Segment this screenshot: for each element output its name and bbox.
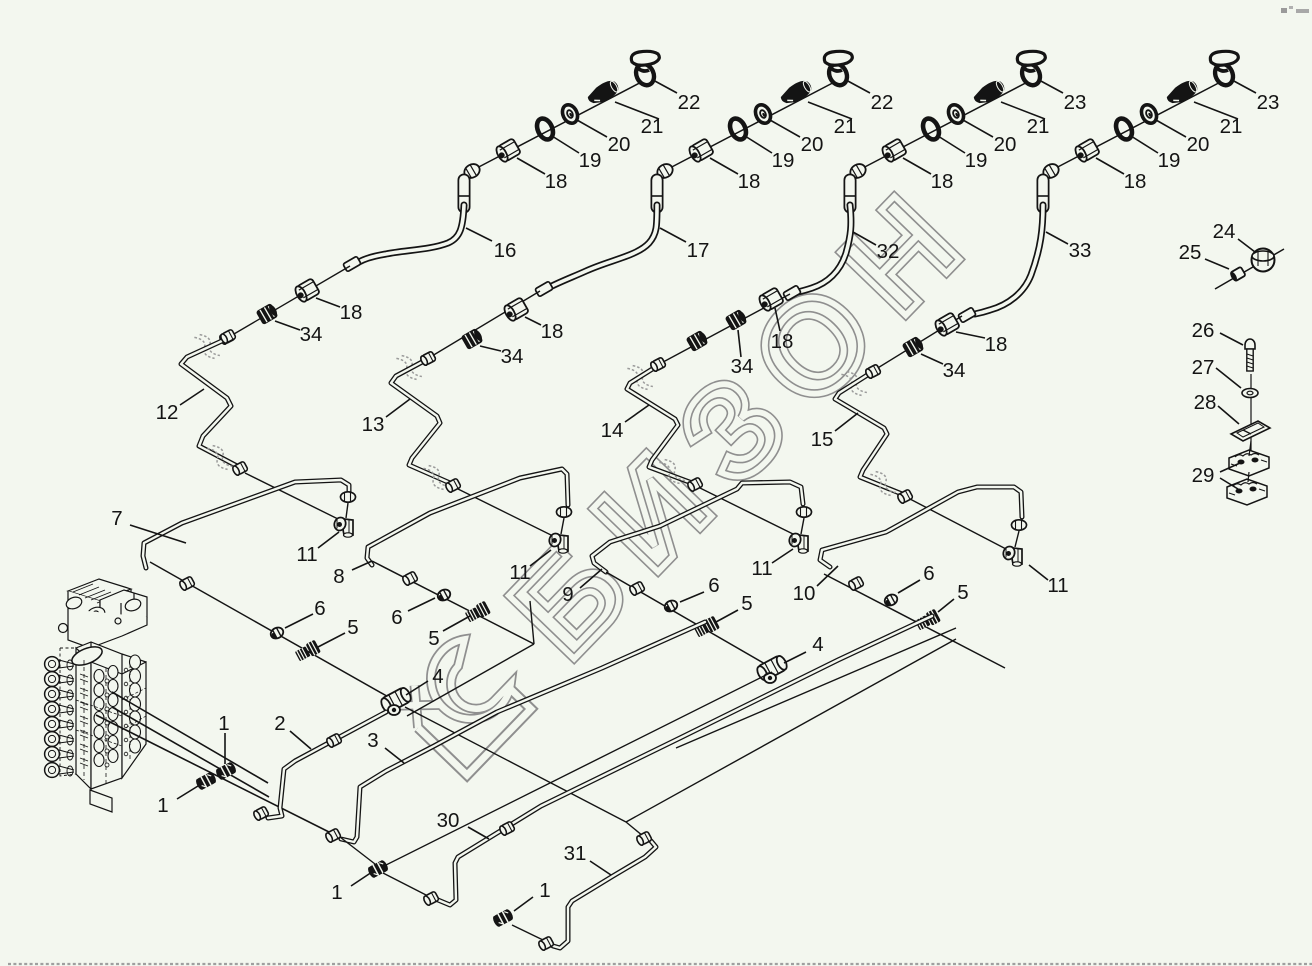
valve block ports [80,655,141,767]
washer 20 [1139,102,1160,125]
fitting 34 [257,303,280,324]
leader 20 [1156,120,1186,137]
pipe 12 [181,340,237,466]
svg-text:21: 21 [641,115,664,138]
line nut-elbow 10 [1015,531,1019,547]
nut 18 [687,138,714,163]
construction line [245,473,340,520]
pipe 30 [438,616,932,905]
axis line [868,316,962,374]
nut 18 [933,312,960,337]
svg-text:21: 21 [834,115,857,138]
svg-text:19: 19 [772,149,795,172]
svg-text:19: 19 [965,149,988,172]
bolt 26 [1245,339,1255,371]
fitting 34 [726,309,749,330]
leader 27 [1216,368,1241,388]
axis line [824,574,1005,668]
svg-text:34: 34 [731,355,754,378]
construction line [530,601,534,644]
leader 18 [775,308,780,331]
svg-text:29: 29 [1192,464,1215,487]
pipe 14 [627,368,692,483]
svg-text:30: 30 [437,809,460,832]
leader 15 [835,413,858,431]
leader 34 [738,330,741,357]
axis line [422,291,540,362]
svg-text:27: 27 [1192,356,1215,379]
leader 33 [1046,232,1068,244]
pipe 13 bottom nut [445,478,462,493]
svg-text:23: 23 [1064,91,1087,114]
leader 11 [530,550,551,566]
leader 7 [130,525,186,543]
leader 23 [1039,80,1063,93]
hose 33 ferrule band [1037,195,1049,197]
valve block texture [76,660,146,784]
small nut [865,364,882,379]
leader 21 [1001,102,1045,119]
construction line [458,489,553,536]
svg-text:2: 2 [274,712,285,735]
watermark logo swirl [392,634,533,775]
line nut-elbow 8 [561,518,564,534]
valve block pilot caps [45,657,74,778]
svg-text:34: 34 [943,359,966,382]
leader 23 [1232,80,1256,93]
leader 32 [853,232,876,245]
elbow nut [462,161,482,180]
leader 9 [580,569,602,588]
fitting 5 [693,616,720,639]
leader 18 [517,158,545,174]
hose 32 ferrule [783,285,801,301]
nut 6 [436,587,452,602]
leader 4 [784,652,806,663]
leader 6 [898,580,920,593]
svg-text:11: 11 [509,561,530,584]
hose 17 top tube [651,180,664,207]
pipe 15 break top [841,368,867,399]
fitting 34 [462,328,485,349]
pipe 30 nut [499,821,516,836]
svg-text:17: 17 [687,239,710,262]
svg-text:5: 5 [741,592,752,615]
nut 18 [494,138,521,163]
construction line [626,639,956,822]
leader 21 [1194,102,1238,119]
leader 4 [406,681,428,695]
nut 18 [502,297,529,322]
leader 6 [680,592,704,602]
fitting 5 [294,640,321,663]
nut 6 [883,592,899,607]
svg-text:21: 21 [1220,115,1243,138]
junction fitting 4 [379,686,413,715]
svg-text:34: 34 [501,345,524,368]
svg-text:20: 20 [1187,133,1210,156]
svg-text:14: 14 [601,419,624,442]
hose 16 top tube [458,180,471,207]
fitting 1 [492,908,515,928]
leader 11 [318,532,339,548]
leader 5 [938,599,954,612]
svg-text:12: 12 [156,401,179,424]
leader 29 [1220,478,1238,489]
leader 19 [938,136,965,153]
svg-text:11: 11 [296,543,317,566]
pipe 15 bottom nut [897,489,914,504]
hose 17 ferrule [535,281,553,297]
elbow fitting 11 [333,516,353,537]
pipe 7 end nut [341,492,356,502]
leader 1 [224,733,226,764]
pipe 9 end nut [797,507,812,517]
elbow nut [848,161,868,180]
leader 31 [590,861,611,875]
o-ring 19 [727,116,749,142]
leader 8 [352,561,372,570]
junction fitting 4 [755,654,789,683]
svg-text:21: 21 [1027,115,1050,138]
nut 6 [663,598,679,613]
line nut-elbow 7 [346,503,348,518]
plate 28 [1231,421,1270,441]
small nut [420,351,437,366]
pipe 9 [592,482,803,572]
leader 2 [290,731,311,749]
leader 16 [466,228,492,241]
svg-text:34: 34 [300,323,323,346]
washer 20 [753,102,774,125]
svg-text:20: 20 [801,133,824,156]
leader 6 [285,614,313,628]
svg-text:22: 22 [678,91,701,114]
leader 29 [1220,463,1240,472]
svg-text:31: 31 [564,842,587,865]
leader 21 [808,102,852,119]
leader 22 [846,80,870,93]
hose 16 [359,205,464,262]
svg-text:18: 18 [738,170,761,193]
svg-text:18: 18 [340,301,363,324]
leader 10 [817,566,838,586]
svg-text:18: 18 [931,170,954,193]
leader 20 [770,120,800,137]
construction line [700,488,793,534]
valve block lower stub [90,790,112,812]
nut [848,576,865,591]
pipe 3 end nut [325,828,342,843]
svg-text:32: 32 [877,240,900,263]
breather cap 22 [824,51,852,88]
svg-text:24: 24 [1213,220,1236,243]
cone fitting 21 [1164,77,1200,108]
o-ring 19 [920,116,942,142]
leader 5 [716,610,738,622]
pipe 14 break bottom [659,456,685,487]
svg-text:25: 25 [1179,241,1202,264]
bottom dotted rule [8,963,1312,965]
svg-text:18: 18 [1124,170,1147,193]
svg-text:11: 11 [1047,574,1068,597]
hose 32 [798,205,851,292]
leader 1 [514,897,533,911]
svg-text:33: 33 [1069,239,1092,262]
nut 18 [757,287,784,312]
construction line [340,837,375,864]
pipe 8 [367,469,568,565]
leader 18 [525,317,541,325]
construction line [405,707,626,822]
elbow fitting 11 [548,532,568,553]
nut 24 [1252,249,1275,272]
leader 18 [710,158,738,174]
leader 34 [480,346,501,351]
hose 17 ferrule band [651,195,663,197]
washer 20 [560,102,581,125]
leader 34 [275,321,300,330]
leader 5 [318,633,345,647]
elbow nut [1041,161,1061,180]
fitting 1 [367,859,390,879]
hose 33 [975,205,1043,314]
small nut [650,357,667,372]
fitting 34 [903,336,926,357]
cone fitting 21 [778,77,814,108]
leader 1 [351,872,372,886]
breather cap 23 [1210,51,1238,88]
axis line [606,572,772,668]
hose 32 ferrule band [844,195,856,197]
breather cap 23 [1017,51,1045,88]
svg-text:6: 6 [391,606,402,629]
hose 16 ferrule [343,256,361,272]
construction line [910,499,1006,549]
fitting 5 [464,601,491,624]
leader 6 [408,598,435,611]
leader 24 [1238,239,1255,252]
line washer-clamp [1249,441,1251,456]
pipe 15 break bottom [870,468,896,499]
svg-text:5: 5 [957,581,968,604]
svg-text:20: 20 [608,133,631,156]
nut [179,576,196,591]
breather cap 22 [631,51,659,88]
nut 18 [880,138,907,163]
svg-text:13: 13 [362,413,385,436]
svg-text:18: 18 [545,170,568,193]
hose 17 [552,205,657,286]
hose 16 ferrule band [458,195,470,197]
svg-text:18: 18 [541,320,564,343]
svg-text:1: 1 [157,794,168,817]
leader 13 [386,399,410,417]
fitting 1 [215,761,238,781]
pipe 12 break bottom [207,442,233,473]
axis line assembly 32 [859,76,1039,170]
svg-text:6: 6 [314,597,325,620]
leader 18 [956,332,985,338]
construction line [676,628,956,748]
leader 18 [1096,158,1124,174]
axis line assembly 16 [473,76,653,170]
pipe 13 break bottom [423,462,449,493]
axis line 24-25 [1215,249,1284,289]
pipe 12 break top [194,331,220,362]
nut 18 [1073,138,1100,163]
leader 12 [180,389,204,405]
svg-text:19: 19 [579,149,602,172]
elbow fitting 11 [788,532,808,553]
axis line [652,294,790,368]
hose 33 top tube [1037,180,1050,207]
axis line assembly 17 [666,76,846,170]
line clamp-clamp [1248,472,1249,482]
svg-text:6: 6 [923,562,934,585]
svg-text:28: 28 [1194,391,1217,414]
clamp half 29 [1227,479,1267,505]
svg-text:8: 8 [333,565,344,588]
fitting [687,330,710,351]
o-ring 19 [1113,116,1135,142]
washer 27 [1242,389,1258,398]
leader 3 [385,748,404,763]
pipe 31 [553,841,656,948]
construction line [378,672,772,869]
pipe 12 bottom nut [232,461,249,476]
svg-text:15: 15 [811,428,834,451]
nut [402,571,419,586]
leader 20 [577,120,607,137]
svg-text:23: 23 [1257,91,1280,114]
tiny header mark [1296,9,1309,13]
pipe 7 [143,480,349,568]
svg-text:7: 7 [111,507,122,530]
valve block body [59,579,148,789]
pipe 31 bottom nut [538,936,555,951]
nut 6 [269,625,285,640]
leader 11 [772,549,793,563]
axis line assembly 33 [1052,76,1232,170]
leader 19 [1131,136,1158,153]
hose 33 ferrule [958,307,976,323]
elbow nut [655,161,675,180]
svg-text:22: 22 [871,91,894,114]
fitting 5 [914,609,941,632]
axis line [372,561,534,644]
leader 30 [468,827,489,839]
svg-text:5: 5 [428,627,439,650]
leader 19 [745,136,772,153]
pipe 14 bottom nut [687,477,704,492]
leader 18 [316,298,340,307]
pipe 10 end nut [1012,520,1027,530]
leader 14 [625,405,649,422]
washer 20 [946,102,967,125]
pipe 10 [820,487,1022,567]
pipe 14 break top [627,362,653,393]
svg-text:10: 10 [793,582,816,605]
cone fitting 21 [971,77,1007,108]
svg-text:4: 4 [432,665,443,688]
svg-text:6: 6 [708,574,719,597]
svg-text:9: 9 [562,583,573,606]
nut [629,581,646,596]
pipe 8 end nut [557,507,572,517]
pipe 15 top nut [865,364,882,379]
leader 21 [615,102,659,119]
pipe 13 top nut [420,351,437,366]
leader 18 [903,158,931,174]
pipe 14 top nut [650,357,667,372]
leader 17 [660,228,686,242]
cone fitting 21 [585,77,621,108]
svg-text:18: 18 [771,330,794,353]
line nut-elbow 9 [801,518,804,534]
pipe 12 top nut [220,329,237,344]
leader 22 [653,80,677,93]
svg-text:1: 1 [539,879,550,902]
pipe 13 [391,361,450,483]
svg-text:18: 18 [985,333,1008,356]
port line [96,715,331,833]
clamp half 29 [1229,450,1269,476]
svg-text:1: 1 [218,712,229,735]
svg-text:20: 20 [994,133,1017,156]
o-ring 19 [534,116,556,142]
pipe 31 top nut [636,831,653,846]
svg-text:11: 11 [751,557,772,580]
leader 26 [1220,333,1243,345]
svg-text:1: 1 [331,881,342,904]
leader 5 [443,616,470,631]
leader 19 [552,136,579,153]
pipe 15 [835,374,902,494]
pipe 13 break top [396,352,422,383]
leader 34 [921,354,943,364]
leader 1 [177,786,198,799]
svg-text:5: 5 [347,616,358,639]
svg-text:16: 16 [494,239,517,262]
port line [112,707,269,797]
construction line [407,644,534,716]
nut 18 [293,278,320,303]
axis line [150,562,392,699]
svg-text:26: 26 [1192,319,1215,342]
svg-text:3: 3 [367,729,378,752]
pipe 2 [268,712,386,818]
elbow fitting 11 [1002,545,1022,566]
port line [112,692,268,783]
pipe 2 end nut [253,806,270,821]
cap 25 [1229,267,1246,282]
pipe 2 nut [326,733,343,748]
svg-text:4: 4 [812,633,823,656]
line bolt-washer [1250,374,1252,456]
svg-text:19: 19 [1158,149,1181,172]
pipe 30 bottom nut [423,891,440,906]
leader 28 [1218,406,1239,424]
small nut [219,330,236,345]
hose 32 top tube [844,180,857,207]
leader 11 [1029,565,1048,580]
leader 25 [1205,259,1229,269]
tiny header mark [1281,8,1287,13]
construction line [383,873,428,896]
pipe 3 [341,622,705,842]
construction line [626,822,643,836]
